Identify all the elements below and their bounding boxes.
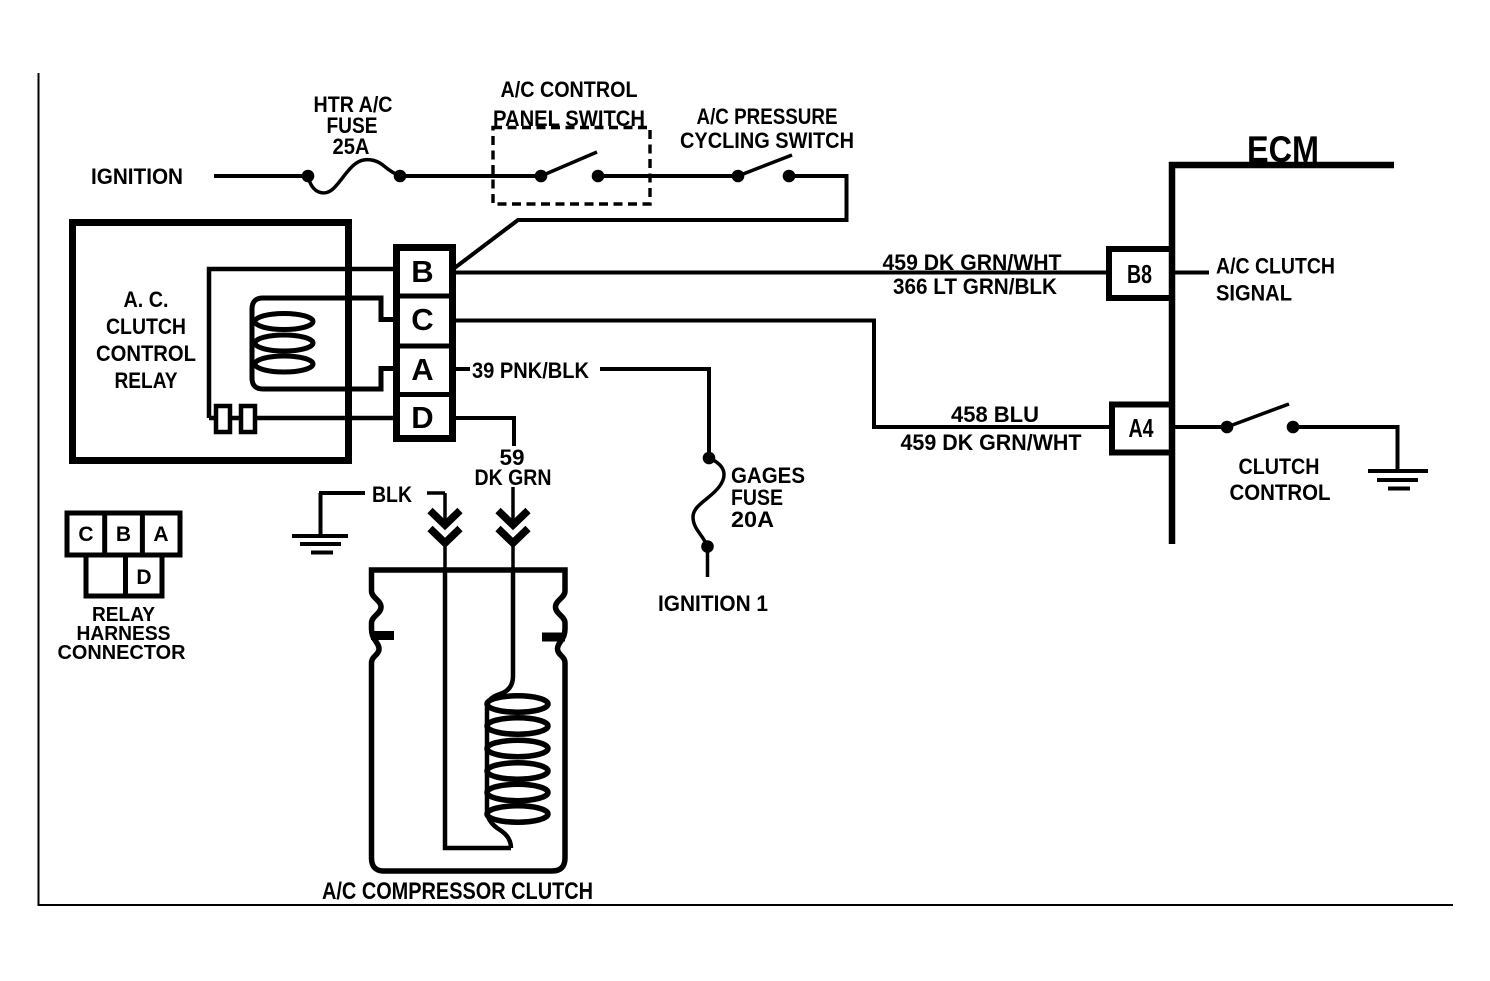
wire A to gages fuse [600,369,709,452]
svg-text:PANEL SWITCH: PANEL SWITCH [493,106,645,131]
border frame left [38,73,40,905]
relay coil loop 1 [255,314,313,330]
label A/C PRESSURE CYCLING SWITCH [680,104,854,153]
wire panel switch to pressure switch [598,174,738,178]
ECM vertical line [1169,162,1176,544]
svg-text:A/C PRESSURE: A/C PRESSURE [697,104,838,129]
svg-text:25A: 25A [333,134,370,159]
wire D to compressor [453,418,514,446]
svg-text:D: D [136,566,151,589]
jar left collar tick [371,631,394,640]
svg-text:RELAY: RELAY [115,368,178,393]
wire fuse to ignition1 [706,547,710,578]
relay coil outline [252,298,395,389]
svg-text:366 LT GRN/BLK: 366 LT GRN/BLK [893,274,1057,299]
svg-text:A4: A4 [1129,413,1154,443]
svg-text:458 BLU: 458 BLU [951,402,1039,427]
wire BLK drop with arrows [430,493,460,570]
svg-text:A/C COMPRESSOR CLUTCH: A/C COMPRESSOR CLUTCH [322,878,593,905]
wire inside compressor (left leg + bottom) [445,570,511,848]
svg-text:A: A [153,523,168,546]
fuse HTR A/C 25A [302,160,407,193]
fuse GAGES 20A [693,452,724,553]
svg-text:CLUTCH: CLUTCH [1239,454,1320,479]
wire pressure switch down to terminal B (step) [455,176,847,268]
svg-text:39 PNK/BLK: 39 PNK/BLK [472,358,589,383]
svg-text:BLK: BLK [372,482,412,507]
svg-text:A: A [411,352,433,387]
switch A/C control panel (dashed box) [493,128,650,205]
switch A/C pressure cycling [732,155,796,182]
jar right collar tick [542,633,565,642]
label A/C CONTROL PANEL SWITCH [493,77,645,131]
compressor coil loop 5 [487,784,548,800]
svg-text:A/C CONTROL: A/C CONTROL [501,77,638,102]
svg-text:SIGNAL: SIGNAL [1216,281,1292,306]
svg-text:IGNITION 1: IGNITION 1 [658,591,768,616]
relay contact points [216,406,230,432]
svg-text:CONTROL: CONTROL [1230,480,1331,505]
svg-text:A. C.: A. C. [124,287,169,312]
switch clutch control [1172,425,1227,429]
connector terminal block BCAD [397,248,453,439]
svg-text:DK GRN: DK GRN [475,465,552,490]
border frame bottom [38,904,1454,906]
ECM top line [1169,162,1394,169]
wire B8 stub [1172,271,1209,275]
compressor coil loop 1 [487,696,548,712]
label CLUTCH CONTROL [1230,454,1331,505]
relay coil loop 2 [255,335,313,351]
ground right [1368,471,1428,489]
wire C to A4 [453,321,1110,428]
label GAGES FUSE 20A [731,463,805,532]
wire fuse to panel switch [400,174,541,178]
compressor coil loop 2 [487,718,548,734]
svg-text:B: B [116,523,131,546]
relay harness connector bottom row [86,555,162,596]
compressor coil loop 3 [487,740,548,756]
svg-text:C: C [78,523,93,546]
svg-text:C: C [411,302,433,337]
relay A.C. clutch control relay box [73,223,349,461]
wire relay internal D leg [209,416,395,421]
svg-text:CLUTCH: CLUTCH [106,314,186,339]
label BLK with bracket [319,482,445,507]
connector B8 [1109,249,1172,298]
wire DK GRN drop with arrows [498,487,528,570]
svg-text:D: D [411,400,433,435]
wire A stub [453,367,470,371]
svg-text:CYCLING SWITCH: CYCLING SWITCH [680,128,854,153]
connector A4 [1112,405,1172,453]
wire ignition feed [214,174,308,178]
label 59 DK GRN [475,445,552,490]
A/C compressor clutch housing [372,570,566,871]
compressor coil loop 4 [487,763,548,779]
label A/C CLUTCH SIGNAL [1216,254,1335,306]
label A. C. CLUTCH CONTROL RELAY [96,287,196,393]
relay harness connector top row [67,513,180,555]
wire coil feed inside compressor [487,570,513,848]
compressor coil loop 6 [487,806,548,822]
ground left [292,536,348,553]
wire relay internal B leg [209,269,395,418]
svg-text:459 DK GRN/WHT: 459 DK GRN/WHT [883,250,1063,275]
label HTR A/C FUSE 25A [314,92,393,159]
svg-text:B8: B8 [1127,259,1152,289]
svg-text:CONTROL: CONTROL [96,341,196,366]
wire B to B8 [453,271,1106,275]
relay coil loop 3 [255,356,313,372]
wire to ground [1293,427,1398,469]
svg-text:CONNECTOR: CONNECTOR [58,642,187,664]
svg-text:20A: 20A [731,507,774,532]
svg-text:A/C CLUTCH: A/C CLUTCH [1216,254,1335,279]
svg-text:459 DK GRN/WHT: 459 DK GRN/WHT [901,430,1083,455]
svg-text:IGNITION: IGNITION [91,164,183,189]
svg-text:B: B [411,254,433,289]
wire BLK to ground [319,493,323,534]
label RELAY HARNESS CONNECTOR [58,604,187,664]
